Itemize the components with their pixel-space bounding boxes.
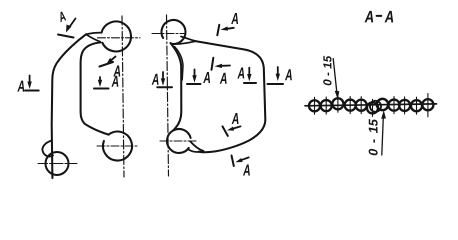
middle figure centerline (167, 15, 169, 176)
label A of mark M7 (232, 113, 239, 124)
section arrow mark M8 (bottom outer, label A) (232, 156, 249, 167)
left figure top wedge lower line (86, 34, 100, 41)
label A of mark 4 (111, 76, 118, 87)
weld spot circle ticks (315, 94, 428, 117)
middle figure neck upper line (181, 37, 196, 42)
label A of mark M5 (237, 67, 244, 78)
label A of mark M8 (243, 164, 250, 175)
section title letter A left (365, 11, 374, 23)
section arrow mark 3 (center diagonal, label A) (100, 57, 116, 67)
middle figure outline top right bottom (196, 41, 265, 152)
left figure bottom loop tick (97, 145, 137, 147)
middle figure left edge (171, 43, 182, 131)
middle figure second neck line (175, 47, 184, 81)
middle figure bottom wedge lower line (188, 149, 204, 152)
section arrow mark M4 (middle row diagonal bar, label A) (212, 58, 231, 70)
left figure bottom-left eyelet tick (38, 163, 77, 165)
middle figure top loop tick (152, 33, 184, 35)
section arrow mark 2 (left mid, label A) (25, 76, 39, 91)
left figure bottom loop (103, 132, 132, 161)
left figure wire end teardrop loop (42, 141, 53, 157)
left figure bottom-left eyelet circle (46, 152, 69, 175)
label A of mark M1 (231, 13, 238, 24)
upper dimension line 0-15 (333, 59, 339, 100)
middle figure bottom loop tick (160, 140, 196, 142)
section arrow mark 1 (top-left, label A) (58, 19, 76, 38)
label A of mark M3 (203, 72, 210, 83)
lower dimension text 0-15 (369, 119, 378, 155)
section arrow mark M2 (middle row, label A) (157, 72, 172, 87)
label A of mark M4 (220, 73, 227, 84)
middle figure top loop (161, 20, 185, 44)
label A of mark M6 (285, 69, 292, 80)
upper dimension text 0-15 (323, 56, 331, 86)
section view A-A weld row centerline (305, 104, 437, 106)
section arrow mark M6 (right of middle figure, label A) (268, 67, 284, 84)
weld spot circles (309, 98, 434, 113)
middle figure neck lower line (171, 41, 196, 44)
middle figure bottom loop (167, 129, 191, 153)
label A of mark 3 (113, 65, 120, 76)
left figure top wedge upper line (86, 33, 102, 35)
left figure top loop center tick (98, 37, 141, 39)
left figure outer wire (52, 34, 86, 178)
label A of mark M2 (152, 74, 159, 85)
left figure centerline (122, 16, 124, 177)
section arrow mark 4 (center vertical, label A) (94, 77, 109, 89)
label A of mark 2 (17, 81, 24, 92)
section arrow mark M1 (top of middle figure, label A) (217, 25, 234, 36)
section arrow mark M7 (bottom inner, label A) (223, 126, 241, 135)
label A of mark 1 (57, 11, 66, 22)
left figure inner wire (81, 42, 109, 134)
left figure top loop (102, 21, 131, 51)
lower dimension line 0-15 (381, 110, 386, 155)
section arrow mark M3 (middle row, label A) (187, 69, 201, 84)
middle figure bottom wedge upper line (190, 142, 203, 152)
section title letter A right (385, 11, 394, 23)
section title dash (377, 15, 382, 17)
section arrow mark M5 (middle row, label A) (244, 68, 256, 83)
